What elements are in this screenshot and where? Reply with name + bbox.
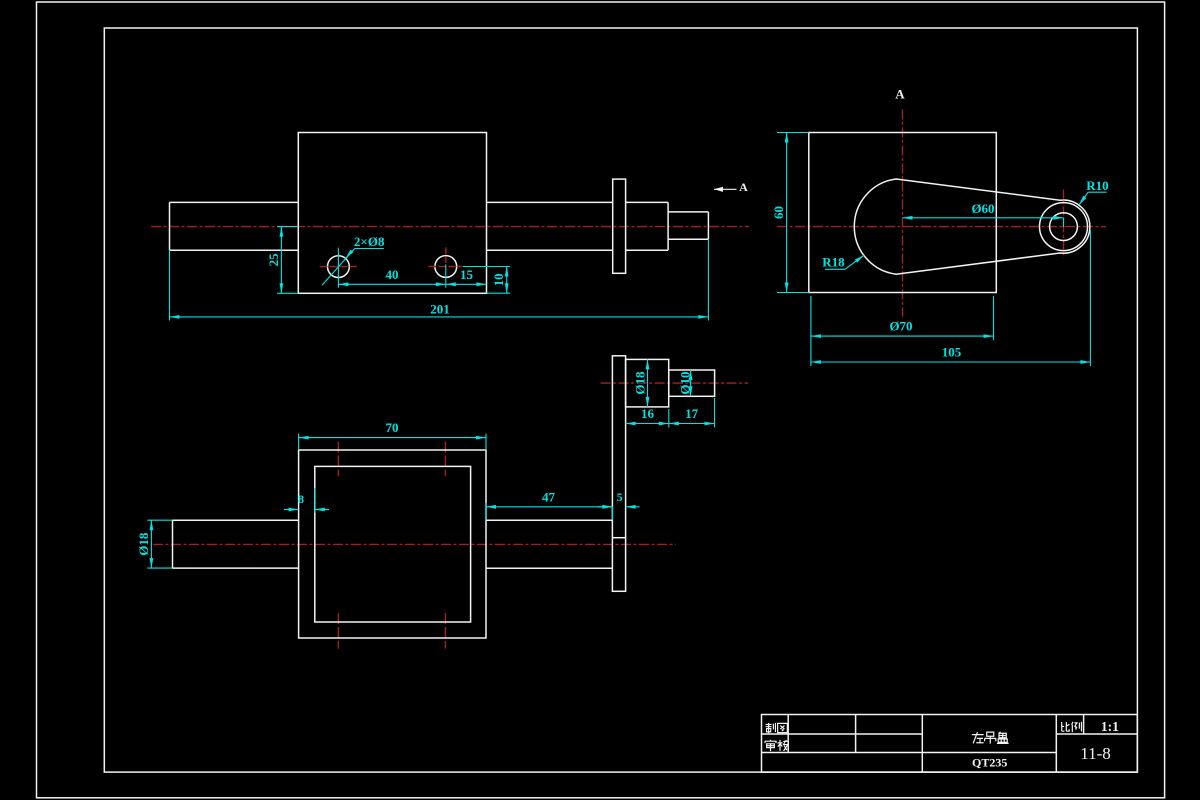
svg-text:A: A [895,87,905,102]
svg-text:40: 40 [386,267,399,282]
svg-text:201: 201 [430,302,450,317]
svg-text:17: 17 [685,406,699,421]
svg-text:R18: R18 [822,255,845,270]
svg-text:Ø18: Ø18 [136,532,151,556]
svg-text:16: 16 [641,406,655,421]
svg-text:1:1: 1:1 [1101,719,1119,734]
svg-text:Ø10: Ø10 [677,372,692,395]
svg-text:105: 105 [942,344,962,359]
svg-text:25: 25 [266,253,281,267]
svg-text:8: 8 [298,492,304,506]
svg-text:A: A [739,180,748,194]
svg-text:60: 60 [771,206,786,219]
svg-text:Ø70: Ø70 [889,318,912,333]
svg-text:R10: R10 [1086,178,1108,193]
svg-text:2×Ø8: 2×Ø8 [354,234,385,249]
svg-text:11-8: 11-8 [1080,744,1111,763]
svg-text:70: 70 [386,420,399,435]
svg-text:47: 47 [542,489,556,504]
svg-text:Ø60: Ø60 [971,201,994,216]
svg-text:Ø18: Ø18 [633,371,648,395]
svg-text:10: 10 [491,273,506,286]
svg-text:5: 5 [617,490,623,504]
svg-text:QT235: QT235 [972,755,1007,769]
svg-text:15: 15 [460,267,474,282]
